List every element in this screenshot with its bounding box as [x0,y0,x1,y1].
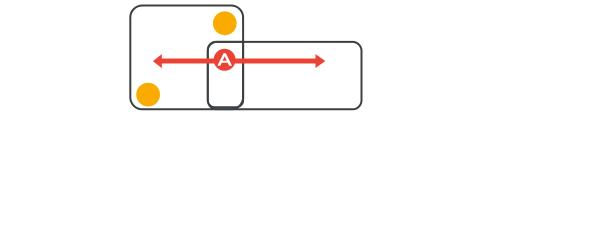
orange dot bottom-left [136,83,160,107]
arrow shaft [159,59,318,64]
large rect (scroll container) [130,6,243,110]
arrowhead right [316,54,326,68]
wide rect (positioned element) [208,42,362,109]
letter A [217,53,232,65]
anchor badge A [214,49,236,71]
orange dot top-right [213,11,237,35]
narrow rect (anchor column) [208,42,243,107]
arrowhead left [153,54,162,68]
